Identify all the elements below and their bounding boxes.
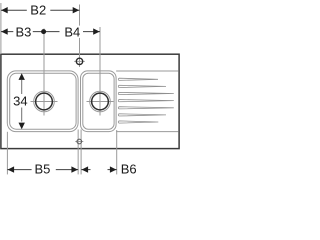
svg-text:B2: B2: [30, 3, 46, 18]
svg-text:34: 34: [13, 94, 27, 109]
svg-text:B3: B3: [15, 24, 31, 39]
svg-text:B5: B5: [34, 162, 50, 177]
svg-text:B6: B6: [121, 162, 137, 177]
svg-text:B4: B4: [64, 24, 80, 39]
